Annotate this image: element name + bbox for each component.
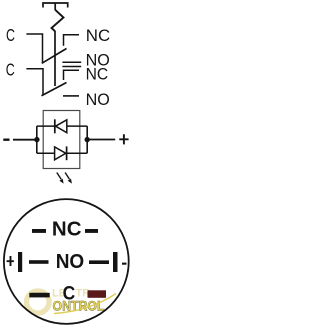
pushbutton actuator cap [43,3,68,8]
LED minus terminal mark [3,139,9,141]
svg-text:C: C [6,25,15,45]
svg-text:NO: NO [56,251,84,273]
right junction node [85,137,90,142]
left terminal bar [18,252,22,272]
C terminal left dash [32,293,46,297]
LED D1 cathode bar [54,119,56,133]
pole 2 moving contact lever [42,83,67,96]
pole 1 moving contact lever [42,49,67,64]
LED plus terminal mark [119,134,128,144]
light emission arrow 2 [65,173,72,184]
NO1 contact line [62,61,81,63]
LED D1 triangle [56,120,67,133]
actuator spring zigzag [52,10,64,31]
svg-text:NO: NO [86,90,110,109]
left junction node [34,137,39,142]
NC terminal right dash [85,229,98,233]
LED D2 cathode bar [66,146,68,160]
NC1 fixed contact [64,35,80,46]
C1 lead wire [26,34,42,63]
svg-text:C: C [6,59,15,79]
bottom branch wire [37,152,87,154]
LED right lead wire [87,139,115,141]
right branch riser wire [86,126,88,153]
rear view bezel circle [4,199,129,324]
LED D2 triangle [55,147,66,160]
svg-text:NC: NC [86,64,109,83]
actuator stem [54,3,56,10]
NC terminal left dash [32,229,46,233]
right terminal bar [113,252,118,272]
svg-text:C: C [63,283,76,305]
light emission arrow 1 [57,173,64,184]
NO terminal right dash [89,260,109,264]
top branch wire [37,125,87,127]
svg-text:ONTROL: ONTROL [53,298,105,313]
actuator rod [54,31,56,86]
LED left lead wire [13,139,37,141]
NO2 contact line [63,95,79,97]
plus terminal label left [7,256,14,266]
C terminal right dash [88,291,101,295]
NC2 contact line [62,66,81,68]
LED module box [43,111,80,169]
svg-text:NC: NC [86,26,110,45]
NO terminal left dash [29,260,49,264]
minus terminal label right [122,263,127,265]
C2 lead wire [26,69,43,95]
watermark logo [27,288,117,314]
svg-text:NC: NC [52,218,82,240]
NC2 fixed contact [64,70,80,80]
left branch riser wire [36,126,38,153]
